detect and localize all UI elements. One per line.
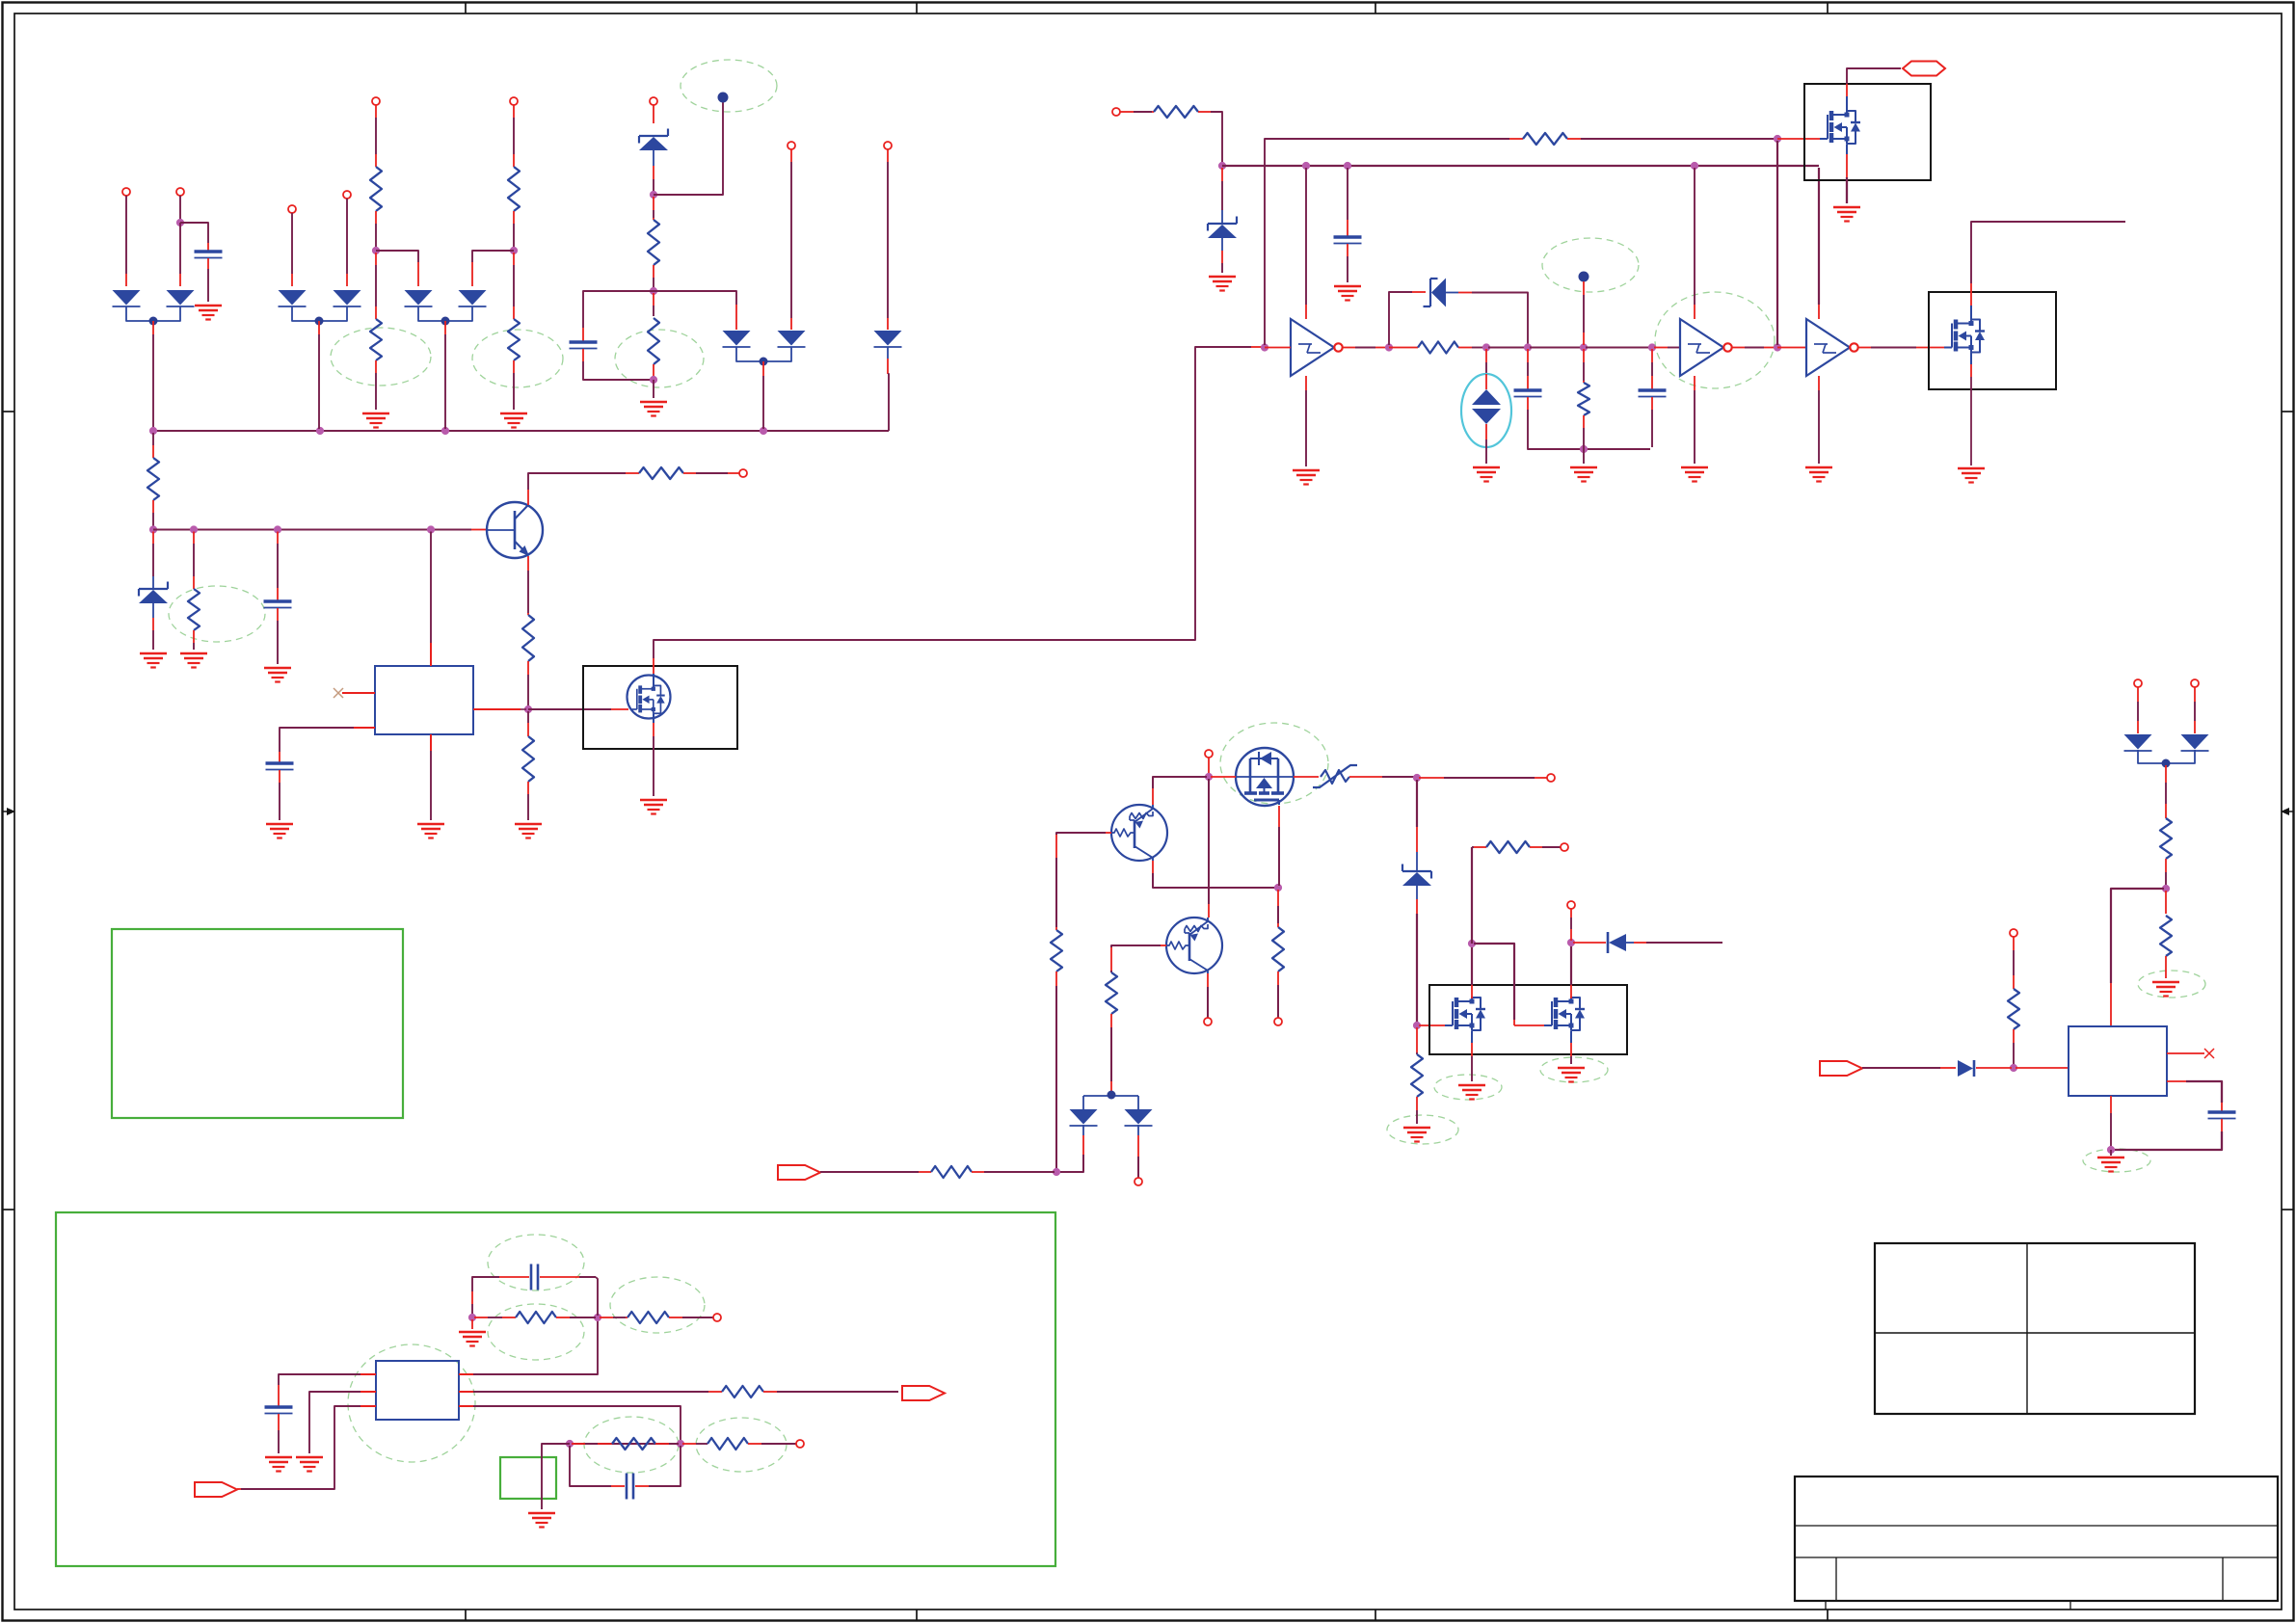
ground (2097, 1157, 2124, 1172)
wire pin stub (1570, 985, 1572, 998)
wire (179, 196, 181, 220)
junction (1205, 773, 1213, 781)
wire (2110, 1113, 2112, 1148)
wire pin stub (1764, 347, 1775, 349)
wire pin stub (669, 1317, 682, 1318)
wire pin stub (527, 490, 529, 505)
wire pin stub (471, 529, 487, 531)
wire pin stub (152, 618, 154, 630)
border column tick bottom 3 (1375, 1610, 1376, 1621)
wire (1137, 1125, 1139, 1135)
junction (1774, 135, 1781, 143)
wire (207, 269, 209, 302)
wire (2013, 1043, 2015, 1066)
wire (1211, 112, 1222, 164)
junction (1344, 162, 1351, 170)
zener diode Z1 (639, 129, 668, 151)
junction (2162, 885, 2170, 892)
junction (1413, 774, 1421, 782)
wire (152, 603, 154, 618)
wire (585, 1443, 598, 1445)
wire (1583, 362, 1585, 381)
resistor R12 (1154, 106, 1198, 118)
wire pin stub (653, 723, 654, 736)
wire (375, 373, 377, 410)
junction (650, 376, 657, 384)
wire pin stub (207, 258, 209, 269)
resistor R24 (722, 1386, 763, 1397)
wire pin stub (279, 770, 280, 783)
junction (1302, 162, 1310, 170)
wire pin stub (1514, 1024, 1544, 1026)
wire pin stub (1970, 283, 1972, 306)
wire pin stub (763, 1391, 777, 1393)
wire pin stub (2137, 687, 2139, 702)
wire (570, 1317, 596, 1318)
no-connect X (2204, 1049, 2214, 1058)
wire pin stub (375, 360, 377, 373)
wire pin stub (527, 723, 529, 736)
wire pin stub (1940, 1067, 1956, 1069)
wire pin stub (762, 361, 764, 376)
wire (1651, 362, 1653, 376)
wire (346, 199, 348, 274)
wire pin stub (1082, 1135, 1084, 1155)
wire pin stub (2165, 859, 2167, 872)
ground (195, 306, 222, 320)
ground (362, 413, 389, 428)
wire pin stub (611, 708, 628, 710)
wire (1110, 1027, 1112, 1081)
wire (579, 1276, 596, 1278)
junction (1413, 1022, 1421, 1029)
wire diode Y (1110, 1091, 1112, 1096)
resistor R5 (648, 220, 659, 265)
pin P23 (2010, 929, 2017, 937)
wire pin stub (1583, 333, 1585, 345)
wire (193, 643, 195, 650)
resistor R20 (1411, 1054, 1423, 1097)
wire pin stub (125, 274, 127, 286)
wire rail (153, 529, 471, 531)
wire pin stub (1535, 777, 1547, 779)
junction (1482, 343, 1490, 351)
wire (1277, 985, 1279, 1018)
wire pin stub (152, 500, 154, 513)
mosfet M3 (1944, 320, 1985, 353)
border column tick bottom 4 (1827, 1610, 1829, 1621)
capacitor C10 (627, 1474, 633, 1500)
wire pin stub (653, 197, 654, 210)
IC U6 pin stub (2167, 1052, 2204, 1054)
node dot (1108, 1091, 1116, 1100)
wire (180, 223, 208, 243)
net flag F4 (902, 1386, 945, 1400)
wire (653, 150, 654, 166)
wire pin stub (1375, 347, 1387, 349)
wire pin stub (556, 1317, 570, 1318)
wire (1485, 439, 1487, 464)
diode D2 (167, 290, 195, 306)
pin P15 (1547, 774, 1555, 782)
wire (1472, 293, 1528, 346)
wire pin stub (1527, 349, 1529, 362)
capacitor C1 (195, 252, 223, 258)
wire pin stub (1221, 251, 1223, 263)
wire (473, 1319, 598, 1374)
revision table (1875, 1243, 2195, 1414)
ground (140, 653, 167, 668)
wire (1444, 777, 1535, 779)
wire (653, 714, 654, 723)
wire (1847, 68, 1901, 84)
wire (984, 1171, 1055, 1173)
resistor R1 (370, 167, 382, 211)
resistor R27 (2160, 818, 2172, 859)
junction (2010, 1064, 2017, 1072)
border column tick top 3 (1375, 3, 1376, 14)
diode D15 (1958, 1060, 1974, 1077)
resistor R3 (508, 167, 520, 211)
wire pin stub (683, 472, 696, 474)
wire (2013, 950, 2015, 975)
wire pin stub (1416, 899, 1418, 914)
wire pin stub (1110, 947, 1112, 971)
resistor R2 (370, 319, 382, 360)
wire pin stub (1970, 364, 1972, 377)
wire (1846, 177, 1848, 203)
wire (472, 251, 514, 262)
green outline box 2 (56, 1212, 1055, 1566)
wire pin stub (1777, 138, 1820, 140)
wire pin stub (2165, 765, 2167, 783)
schmitt buffer U3 (1680, 319, 1732, 376)
junction (524, 705, 532, 713)
wire (2165, 783, 2167, 804)
resistor R22 (516, 1312, 556, 1323)
zener diode Z4 (1424, 279, 1459, 307)
wire pin stub (2110, 983, 2112, 1026)
highlight ellipse 1 (681, 60, 777, 112)
wire (1530, 347, 1582, 349)
wire (152, 513, 154, 528)
wire (669, 1443, 679, 1445)
wire pin stub (2165, 956, 2167, 978)
wire pin stub (471, 262, 473, 286)
transistor Q3 (1166, 918, 1222, 973)
wire pin stub (1305, 305, 1307, 319)
wire (278, 1430, 280, 1453)
junction (1274, 884, 1282, 891)
no-connect X (334, 688, 343, 698)
wire pin stub (2137, 721, 2139, 733)
junction (1524, 343, 1532, 351)
wire (654, 347, 1251, 658)
border column tick top 2 (916, 3, 918, 14)
diode D6 (459, 290, 487, 306)
highlight ellipse 17 (610, 1277, 705, 1333)
wire (1570, 998, 1572, 1002)
wire pin stub (2013, 937, 2015, 950)
wire (1416, 914, 1418, 1024)
node dot (441, 317, 450, 326)
wire (1668, 347, 1680, 349)
IC U5 pin stub (360, 1373, 376, 1375)
transistor Q1 (487, 502, 543, 558)
net flag F3 (195, 1482, 237, 1497)
wire (473, 1391, 708, 1393)
border mid arrow left (3, 808, 16, 815)
wire pin stub (1527, 376, 1529, 389)
wire pin stub (1458, 347, 1472, 349)
wire pin stub (513, 105, 515, 118)
wire pin stub (2194, 721, 2196, 733)
wire pin stub (193, 630, 195, 643)
wire (375, 265, 377, 306)
wire (1082, 1096, 1084, 1109)
wire pin stub (1305, 376, 1307, 390)
wire (193, 544, 195, 576)
wire pin stub (1513, 1020, 1515, 1025)
wire (1110, 971, 1112, 972)
wire (1056, 833, 1106, 835)
wire pin stub (790, 318, 792, 330)
wire (762, 376, 764, 429)
ground (1805, 467, 1832, 482)
wire pin stub (1221, 168, 1223, 181)
wire pin stub (179, 274, 181, 286)
wire diode bus (2138, 750, 2195, 763)
diode D7 (723, 331, 751, 347)
wire pin stub (1567, 138, 1581, 140)
border column tick bottom 2 (916, 1610, 918, 1621)
highlight ellipse 19 (696, 1418, 787, 1472)
wire (513, 118, 515, 154)
capacitor C6 (1514, 390, 1542, 397)
wire (1221, 263, 1223, 273)
wire (653, 736, 654, 796)
wire (1221, 181, 1223, 210)
wire pin stub (1471, 1043, 1473, 1056)
pin P5 (372, 97, 380, 105)
wire pin stub (471, 1291, 473, 1304)
capacitor C9 (531, 1264, 538, 1290)
capacitor C5 (1334, 237, 1362, 244)
wire diode bus (292, 306, 347, 321)
wire (1862, 1067, 1940, 1069)
wire pin stub (682, 1443, 696, 1445)
wire (2137, 702, 2139, 721)
wire pin stub (2013, 975, 2015, 989)
wire (1694, 390, 1695, 464)
wire (152, 544, 154, 576)
capacitor C8 (265, 1407, 293, 1414)
wire (1416, 780, 1418, 827)
junction (1691, 162, 1698, 170)
mosfet M1 (630, 685, 665, 713)
wire pin stub (527, 782, 529, 794)
fuse F2 (1313, 765, 1357, 787)
wire (2165, 872, 2167, 887)
border column tick top 1 (465, 3, 467, 14)
pin P3 (288, 205, 296, 213)
capacitor C11 (2208, 1112, 2236, 1119)
wire (1583, 295, 1585, 333)
border column tick bottom 1 (465, 1610, 467, 1621)
diode D9 (874, 331, 902, 347)
green outline box 3 (500, 1457, 556, 1499)
wire pin stub (540, 1276, 579, 1278)
wire pin stub (1485, 349, 1487, 362)
wire pin stub (1694, 305, 1695, 319)
wire (1278, 827, 1280, 886)
diode D11 (1070, 1109, 1098, 1126)
wire pin stub (1161, 945, 1166, 946)
ground (1681, 467, 1708, 482)
pin P9 (884, 142, 892, 149)
wire pin stub (653, 166, 654, 179)
schmitt buffer U2 (1291, 319, 1343, 376)
junction (1385, 343, 1393, 351)
resistor R21 (1486, 841, 1530, 853)
wire pin stub (728, 472, 739, 474)
wire pin stub (1858, 347, 1872, 349)
pin P10 (739, 469, 747, 477)
wire (152, 576, 154, 589)
wire (473, 1406, 681, 1442)
net flag F5 (1820, 1061, 1862, 1076)
wire (1542, 846, 1561, 848)
resistor R14 (1418, 342, 1458, 354)
IC U6 pin stub (2167, 1080, 2186, 1082)
mosfet M6 (1544, 998, 1585, 1030)
wire (1416, 852, 1418, 871)
wire pin stub (1402, 347, 1418, 349)
mosfet M1 circle (627, 676, 671, 719)
ground (296, 1457, 323, 1472)
wire (528, 473, 626, 490)
ground (640, 402, 667, 416)
component box B2 (1804, 84, 1931, 180)
transistor Q2 (1111, 805, 1167, 861)
wire (696, 1443, 707, 1445)
pin P1 (122, 188, 130, 196)
wire (277, 544, 279, 588)
wire pin stub (1152, 111, 1154, 113)
ground (417, 824, 444, 838)
IC U1 pin stub (430, 643, 432, 666)
wire (654, 102, 723, 195)
junction (1774, 343, 1781, 351)
wire pin stub (1343, 347, 1356, 349)
wire pin stub (1471, 985, 1473, 998)
ground (1209, 277, 1236, 291)
ground (500, 413, 527, 428)
title block (1795, 1477, 2278, 1610)
wire (376, 251, 418, 262)
ground (266, 824, 293, 838)
node NC dot (718, 93, 729, 103)
wire (2110, 1150, 2112, 1156)
pin P14 (1205, 750, 1213, 758)
wire (1846, 145, 1848, 154)
wire pin stub (471, 1319, 473, 1329)
wire (653, 306, 654, 316)
junction (316, 427, 324, 435)
wire (513, 373, 515, 410)
pin P19 (713, 1314, 721, 1321)
wire pin stub (626, 1317, 627, 1318)
wire (528, 708, 611, 710)
wire pin stub (527, 661, 529, 675)
wire pin stub (237, 1488, 241, 1490)
wire pin stub (193, 576, 195, 589)
wire pin stub (1416, 827, 1418, 852)
highlight ellipse 10 (1434, 1075, 1502, 1100)
wire (1305, 390, 1307, 466)
IC U6 (2069, 1026, 2167, 1096)
wire pin stub (1791, 347, 1806, 349)
wire pin stub (1278, 806, 1280, 827)
junction (468, 1314, 476, 1321)
ground (1473, 467, 1500, 482)
junction (594, 1314, 601, 1321)
wire pin stub (375, 105, 377, 118)
node dot (2162, 759, 2171, 768)
wire pin stub (653, 265, 654, 278)
wire pin stub (2221, 1103, 2223, 1111)
wire pin stub (653, 105, 654, 123)
wire (1207, 987, 1209, 1018)
junction (760, 427, 767, 435)
resistor R15 (1578, 383, 1589, 415)
wire pin stub (152, 321, 154, 334)
wire pin stub (502, 1317, 516, 1318)
wire (277, 621, 279, 664)
wire pin stub (1583, 415, 1585, 428)
junction (510, 247, 518, 254)
wire pin stub (1208, 904, 1210, 918)
wire (1416, 886, 1418, 899)
wire pin stub (1651, 376, 1653, 389)
wire pin stub (748, 1443, 761, 1445)
wire pin stub (444, 321, 446, 334)
wire diode bus (418, 306, 472, 321)
wire (1846, 96, 1848, 113)
zener diode Z5 (1402, 865, 1431, 887)
wire pin stub (572, 1443, 585, 1445)
zener diode Z3 (1208, 217, 1237, 239)
junction (1580, 343, 1588, 351)
wire (1471, 847, 1473, 944)
highlight ellipse 8 (1220, 723, 1328, 804)
wire pin stub (346, 274, 348, 286)
highlight ellipse 11 (1540, 1057, 1608, 1082)
wire pin stub (1120, 111, 1134, 113)
wire (152, 630, 154, 650)
wire (1818, 168, 1820, 305)
wire pin stub (1277, 890, 1279, 906)
resistor R13 (1523, 133, 1567, 145)
capacitor C3 (264, 601, 292, 608)
mosfet M2 (1820, 111, 1860, 144)
wire pin stub (2165, 804, 2167, 818)
junction (274, 525, 281, 533)
wire pin stub (1732, 347, 1746, 349)
net flag F2 (778, 1165, 820, 1180)
pin P8 (788, 142, 795, 149)
ground (265, 1457, 292, 1472)
